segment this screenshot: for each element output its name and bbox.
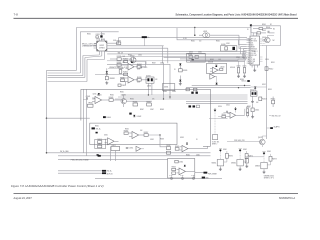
- svg-text:100K: 100K: [113, 40, 116, 42]
- value label 26: [262, 37, 266, 39]
- wire mid rail 2: [118, 96, 248, 98]
- wire rail bottom 4: [58, 170, 102, 172]
- svg-text:C0514: C0514: [255, 110, 259, 112]
- svg-text:U0505: U0505: [252, 49, 257, 51]
- wire comparator rail: [126, 100, 152, 102]
- resistor R0964: [172, 167, 176, 171]
- ground below U0505: [253, 69, 256, 72]
- black mark M0941: [103, 116, 111, 119]
- op-amp U0510-B: [210, 74, 217, 79]
- vertical drop x162.6: [162, 46, 164, 64]
- svg-text:R0941: R0941: [120, 91, 124, 93]
- value label 0: [96, 39, 100, 41]
- svg-text:1K: 1K: [247, 29, 249, 31]
- svg-text:1K: 1K: [196, 139, 198, 141]
- svg-text:R0532: R0532: [216, 41, 220, 43]
- svg-text:SHEET 2: SHEET 2: [212, 144, 218, 146]
- wire left wrap E: [86, 60, 88, 82]
- svg-text:V2: V2: [251, 57, 253, 59]
- svg-text:C0532: C0532: [198, 52, 202, 54]
- op-amp U0512: [228, 112, 245, 118]
- svg-text:TX_EN: TX_EN: [251, 59, 255, 61]
- label on rail 3: [71, 158, 89, 161]
- svg-text:Q0515: Q0515: [258, 137, 263, 139]
- U0505 left pin stubs: [247, 39, 251, 64]
- footer part number text: [279, 197, 295, 200]
- resistor R0521: [246, 107, 250, 112]
- svg-text:E0953: E0953: [191, 174, 195, 176]
- svg-text:R0533: R0533: [210, 59, 214, 61]
- svg-text:R0923: R0923: [117, 40, 122, 42]
- wire flag stub: [267, 127, 271, 129]
- svg-text:C0925: C0925: [143, 67, 148, 69]
- value label 15: [226, 43, 230, 45]
- U0921 top pins: [99, 39, 104, 42]
- wire mid rail 4: [186, 100, 248, 102]
- wire top rail A: [77, 28, 252, 71]
- transistor Q0922 pass FET: [130, 56, 136, 64]
- svg-text:L0931: L0931: [203, 31, 207, 33]
- wire vert below U0510: [216, 77, 218, 83]
- svg-text:100K: 100K: [137, 82, 140, 84]
- jumper E0953 on rail6: [191, 174, 195, 179]
- label L0931: [203, 31, 207, 33]
- value label 10: [155, 79, 157, 81]
- op-amp U0510: [210, 67, 220, 73]
- wire left bundle horiz 5: [48, 81, 88, 83]
- svg-text:NC: NC: [273, 28, 275, 30]
- value label 50: [218, 106, 222, 108]
- resistor R0957: [144, 132, 149, 136]
- svg-text:11: 11: [248, 59, 250, 61]
- resistor R0937 vertical: [119, 68, 124, 74]
- wire left bundle horiz 2: [48, 72, 81, 74]
- svg-text:R0506: R0506: [266, 27, 270, 29]
- black mark M0952: [97, 154, 99, 156]
- svg-text:10K: 10K: [256, 102, 258, 104]
- svg-text:C0506: C0506: [242, 57, 246, 59]
- svg-text:10UF: 10UF: [101, 39, 104, 41]
- wire rail bottom 5: [58, 172, 102, 174]
- value label 37: [130, 98, 134, 100]
- value label 45: [180, 137, 184, 139]
- value label 49: [226, 105, 230, 107]
- wire Q0941 collector: [123, 95, 125, 107]
- svg-text:3: 3: [248, 43, 249, 45]
- value label 17: [198, 52, 202, 54]
- resistor R0954: [97, 144, 102, 148]
- svg-text:GCAP5V: GCAP5V: [274, 126, 280, 129]
- value label 9: [147, 86, 151, 88]
- wire U0512 out: [244, 109, 246, 116]
- pushbutton group S0963: [255, 151, 277, 173]
- svg-text:R0520: R0520: [222, 114, 226, 116]
- wire lower-left vertical a: [83, 89, 85, 153]
- svg-text:C0964: C0964: [179, 161, 183, 163]
- wire lower-left vertical b: [86, 89, 88, 156]
- svg-text:SHEET 1 OF 2: SHEET 1 OF 2: [264, 178, 274, 180]
- value label 22: [262, 24, 266, 26]
- capacitor C0951: [126, 148, 134, 150]
- value label 24: [247, 29, 249, 31]
- regulator U0921 body: [97, 41, 107, 51]
- resistor R0939: [179, 69, 188, 72]
- wire comparator out: [113, 99, 121, 101]
- svg-text:R0937: R0937: [119, 68, 124, 70]
- capacitor C0941: [83, 96, 90, 100]
- svg-text:U0510B: U0510B: [230, 67, 235, 69]
- svg-text:U0933: U0933: [146, 75, 151, 77]
- svg-text:R0971: R0971: [229, 156, 234, 158]
- wire U0921 top feed: [100, 32, 102, 36]
- svg-text:PWB_GROUND_PLANE: PWB_GROUND_PLANE: [71, 158, 89, 161]
- pushbutton ON_OFF S0510: [213, 108, 218, 139]
- component box U0934: [162, 84, 174, 91]
- svg-text:R0947: R0947: [140, 109, 144, 111]
- U0505 bottom pins: [252, 65, 257, 69]
- wire left wrap D: [84, 58, 86, 78]
- wire left bundle horiz 3: [48, 75, 83, 77]
- diode D0512: [254, 87, 256, 91]
- footer date text: [14, 197, 33, 200]
- svg-text:R0536: R0536: [240, 79, 244, 81]
- label box pair: [221, 44, 226, 46]
- wire top rail B: [80, 32, 118, 73]
- svg-text:SW_B+_RAIL: SW_B+_RAIL: [60, 150, 69, 153]
- node rail junctions: [148, 85, 246, 100]
- value label 27: [230, 67, 235, 69]
- black mark M0951: [96, 132, 98, 134]
- svg-text:SPI_CLK: SPI_CLK: [251, 38, 256, 40]
- comparator box U0510: [207, 63, 227, 73]
- svg-text:NC: NC: [270, 24, 272, 26]
- transistor pair U0933: [146, 75, 154, 83]
- wire long rail into U0505 low: [107, 59, 247, 61]
- svg-text:INT: INT: [251, 49, 253, 51]
- svg-text:U0934: U0934: [164, 87, 168, 89]
- wire opamp2 out: [141, 79, 147, 81]
- page number text: [14, 13, 19, 17]
- svg-text:C0521: C0521: [243, 66, 247, 68]
- wire vertical x170 mid: [169, 64, 171, 99]
- wire right vertical x266.5: [266, 46, 268, 140]
- svg-text:SW_RX_5V: SW_RX_5V: [272, 116, 282, 118]
- svg-text:R0948: R0948: [160, 109, 164, 111]
- value label 6: [137, 69, 140, 71]
- svg-text:10K: 10K: [152, 99, 154, 101]
- svg-text:S0962: S0962: [243, 149, 247, 151]
- black dot pair: [191, 92, 198, 94]
- svg-text:R0954: R0954: [97, 144, 102, 146]
- wire into U0921 left: [84, 45, 94, 47]
- svg-text:TP0941: TP0941: [88, 103, 93, 105]
- wire rail bottom 3: [58, 158, 168, 160]
- wire left bundle horiz 1: [47, 69, 77, 71]
- value label 29: [240, 79, 244, 81]
- svg-text:M0961: M0961: [212, 163, 217, 165]
- svg-text:R0531: R0531: [191, 41, 195, 43]
- svg-text:RESET: RESET: [251, 47, 256, 49]
- diode D0933: [131, 60, 133, 64]
- small box K0951: [111, 145, 120, 151]
- top-right box outline: [251, 26, 281, 46]
- svg-text:Q0505: Q0505: [262, 37, 266, 39]
- diode D0961: [186, 143, 188, 145]
- pushbutton group S0962: [231, 149, 253, 171]
- svg-text:5V REG: 5V REG: [99, 47, 105, 49]
- svg-text:1K: 1K: [174, 69, 176, 71]
- svg-text:U0936: U0936: [221, 44, 226, 46]
- op-amp U0941 comparator: [92, 97, 109, 104]
- svg-text:4: 4: [248, 45, 249, 47]
- resistor R0925: [117, 56, 122, 60]
- value label 33: [152, 63, 156, 65]
- value label 44: [160, 139, 164, 141]
- svg-text:100K: 100K: [137, 69, 140, 71]
- resistor R0938: [120, 77, 124, 81]
- diode D0510: [215, 65, 217, 67]
- vertical drop x167.8: [167, 48, 169, 63]
- capacitor C0522: [223, 111, 231, 113]
- value label 47: [186, 155, 190, 157]
- svg-text:Figure 7-8. HUD4022A/HUD4022B: Figure 7-8. HUD4022A/HUD4022B Controller…: [11, 184, 104, 188]
- net flag on rail2: [46, 150, 101, 157]
- U0921 right pins: [107, 43, 111, 48]
- svg-text:C0926: C0926: [160, 63, 164, 65]
- resistor R0936: [137, 77, 142, 81]
- svg-text:7-8: 7-8: [14, 13, 19, 17]
- op-amp U0951-A: [105, 138, 119, 145]
- label U0941: [97, 94, 102, 96]
- U0921 left pins: [94, 44, 97, 49]
- svg-text:R0935: R0935: [123, 72, 128, 74]
- label below group S0963: [264, 175, 274, 179]
- svg-text:Q0512: Q0512: [250, 89, 255, 91]
- net flag pair A: [189, 105, 200, 108]
- diode D0962: [184, 165, 186, 167]
- value label 31: [128, 54, 132, 56]
- svg-text:R0932: R0932: [123, 59, 128, 61]
- oval component L0931: [199, 33, 239, 38]
- svg-text:9: 9: [248, 55, 249, 57]
- svg-text:10: 10: [248, 57, 250, 59]
- svg-text:R0922: R0922: [87, 34, 91, 36]
- wire pass circuit rail: [107, 63, 170, 65]
- value label 53: [271, 62, 275, 64]
- svg-text:R0943: R0943: [109, 97, 114, 99]
- svg-text:S0510: S0510: [218, 106, 222, 108]
- value label 20: [236, 57, 240, 59]
- vertical drop x141.7: [143, 38, 145, 46]
- diode D0941: [98, 93, 100, 95]
- resistor R0934: [137, 64, 142, 68]
- resistor R0946: [133, 101, 138, 106]
- svg-text:U0952: U0952: [112, 145, 116, 147]
- net label RX_5V line: [269, 116, 281, 118]
- value label 46: [196, 139, 198, 141]
- svg-text:R0513: R0513: [262, 99, 267, 101]
- svg-text:R0507: R0507: [262, 30, 266, 32]
- svg-text:M0962: M0962: [231, 163, 236, 165]
- resistor R0512: [265, 67, 273, 71]
- value label 36: [110, 95, 114, 97]
- svg-text:R0973: R0973: [272, 158, 277, 160]
- sub-circuit outer box: [81, 89, 211, 146]
- wire Q0515 wires: [227, 136, 267, 147]
- label 5V rail: [118, 52, 124, 54]
- wire mid box link: [148, 135, 166, 147]
- value label 14: [216, 41, 220, 43]
- wire pushbtn rail: [209, 117, 228, 119]
- svg-text:6: 6: [248, 49, 249, 51]
- wire pass circuit a: [110, 59, 130, 60]
- svg-text:D0944: D0944: [106, 117, 111, 119]
- value label 28: [208, 61, 213, 64]
- svg-text:100: 100: [199, 41, 201, 43]
- svg-text:SW_B+: SW_B+: [96, 129, 101, 131]
- svg-text:7: 7: [248, 51, 249, 53]
- svg-text:C0951: C0951: [129, 148, 134, 150]
- svg-text:C0924: C0924: [138, 54, 142, 56]
- svg-text:C0531: C0531: [226, 43, 230, 45]
- svg-text:C0947: C0947: [150, 109, 154, 111]
- svg-text:SW_B+: SW_B+: [251, 51, 256, 53]
- svg-text:R0511: R0511: [271, 62, 275, 64]
- svg-text:C0938: C0938: [172, 91, 176, 93]
- capacitor C0936: [118, 84, 126, 87]
- svg-text:.1UF: .1UF: [92, 99, 95, 101]
- net label SW_B+ into U0921: [82, 43, 97, 47]
- diode D0511: [216, 83, 218, 85]
- node dot L0931 left: [194, 34, 196, 36]
- op-amp U0961 upper: [180, 146, 208, 152]
- component box pair: [221, 46, 237, 51]
- svg-text:Q0935: Q0935: [188, 54, 192, 56]
- wire mid rail 1: [121, 94, 248, 96]
- svg-text:RX_EN: RX_EN: [251, 61, 255, 63]
- value label 5: [123, 62, 125, 64]
- ground below VR0931: [105, 81, 108, 84]
- svg-text:PWR_SET: PWR_SET: [251, 55, 257, 57]
- resistor R0513: [259, 97, 267, 101]
- resistor R0507 NC row2: [253, 30, 275, 34]
- wire 5V out rail: [107, 53, 246, 55]
- wire bundle into U0505 staircase: [239, 40, 247, 54]
- diode D0931: [106, 68, 108, 73]
- transistor Q0505 NC: [262, 36, 276, 43]
- net flag rail6: [202, 177, 209, 180]
- value label 4: [123, 56, 125, 58]
- svg-text:U0941: U0941: [97, 94, 102, 96]
- value label 39: [95, 126, 99, 128]
- wire box verticals: [111, 147, 116, 162]
- svg-text:SPI_MOSI: SPI_MOSI: [251, 40, 258, 42]
- value label 51: [247, 106, 251, 108]
- capacitor C0925: [140, 67, 148, 69]
- value label 34: [160, 63, 164, 65]
- resistor R0953: [97, 139, 102, 143]
- value label 40: [104, 135, 108, 137]
- wire 9.3V corner: [177, 28, 251, 40]
- svg-text:S0963: S0963: [267, 151, 271, 153]
- wire drop to bead: [194, 27, 195, 35]
- net flag B+: [142, 36, 150, 39]
- wire mid rail 5: [186, 102, 248, 104]
- resistor R0965: [172, 172, 176, 174]
- svg-text:TX_RX_SEL: TX_RX_SEL: [212, 142, 220, 144]
- svg-text:R0505: R0505: [262, 24, 266, 26]
- capacitor C0963 left of S0963: [245, 157, 264, 168]
- jumper E0951 on rail6: [169, 174, 173, 179]
- value label 12: [191, 41, 195, 43]
- svg-text:C0952: C0952: [150, 139, 154, 141]
- wire rail SW_B+ bottom 1: [47, 152, 211, 154]
- capacitor C0962: [166, 145, 170, 150]
- resistor R0956: [124, 130, 129, 134]
- resistor R0923: [117, 40, 122, 44]
- value label 35: [93, 94, 97, 96]
- wire mid-left horizontal: [47, 117, 90, 119]
- value label 18: [210, 59, 214, 61]
- svg-text:VR0931: VR0931: [110, 78, 116, 80]
- node box junction: [159, 134, 160, 135]
- value label 59: [120, 91, 124, 93]
- svg-text:Q0531: Q0531: [189, 52, 193, 54]
- diode D0935: [179, 63, 181, 68]
- svg-text:R0962: R0962: [186, 155, 190, 157]
- resistor R0519: [220, 67, 225, 71]
- wire L0931 to IC: [239, 35, 248, 48]
- wire left wrap C: [82, 56, 84, 76]
- value label 54: [262, 84, 266, 86]
- svg-text:R0964: R0964: [172, 167, 176, 169]
- svg-text:M0963: M0963: [255, 165, 260, 167]
- value label 52: [265, 59, 269, 61]
- svg-text:SW_B+: SW_B+: [107, 171, 112, 173]
- svg-text:R0521: R0521: [247, 106, 251, 108]
- diode D0942: [133, 115, 141, 118]
- value label 2: [87, 34, 91, 36]
- value label 16: [189, 52, 193, 54]
- svg-text:PWR_SENSE: PWR_SENSE: [208, 173, 217, 175]
- value label 19: [218, 59, 221, 61]
- svg-text:R0955: R0955: [125, 129, 129, 131]
- svg-text:R0957: R0957: [144, 132, 149, 134]
- wire bottom rail 6: [95, 177, 222, 179]
- svg-text:10K: 10K: [140, 130, 142, 132]
- wire left bundle horiz 4: [48, 76, 85, 78]
- op-amp U0931-A: [126, 64, 139, 71]
- svg-text:R0972: R0972: [248, 156, 253, 158]
- svg-text:47K: 47K: [123, 62, 125, 64]
- value label 42: [140, 130, 142, 132]
- wire U0505 top left: [251, 26, 253, 32]
- resistor R0943: [109, 97, 114, 101]
- value label 11: [174, 69, 176, 71]
- capacitor C0523: [247, 113, 249, 118]
- wire mid rail A: [192, 84, 251, 86]
- svg-text:R0926: R0926: [117, 62, 122, 64]
- transistor Q0512 circuit: [250, 89, 257, 96]
- value label 57: [163, 91, 167, 93]
- svg-text:C0936: C0936: [122, 85, 126, 87]
- net flag rail5: [102, 172, 113, 175]
- svg-text:2: 2: [248, 40, 249, 42]
- svg-text:Schematics, Component Location: Schematics, Component Location Diagrams,…: [175, 13, 297, 16]
- svg-text:C0512: C0512: [226, 105, 230, 107]
- svg-text:C0520: C0520: [237, 66, 241, 68]
- svg-text:R0515: R0515: [268, 89, 272, 91]
